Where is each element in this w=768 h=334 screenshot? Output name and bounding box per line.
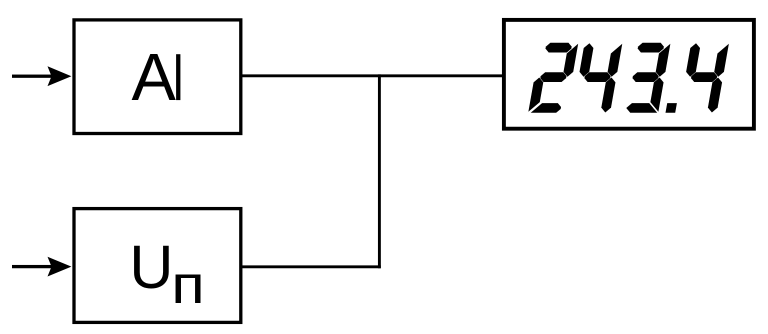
svg-text:A: A	[132, 41, 177, 115]
svg-text:U: U	[129, 233, 173, 301]
svg-text:п: п	[171, 256, 205, 315]
